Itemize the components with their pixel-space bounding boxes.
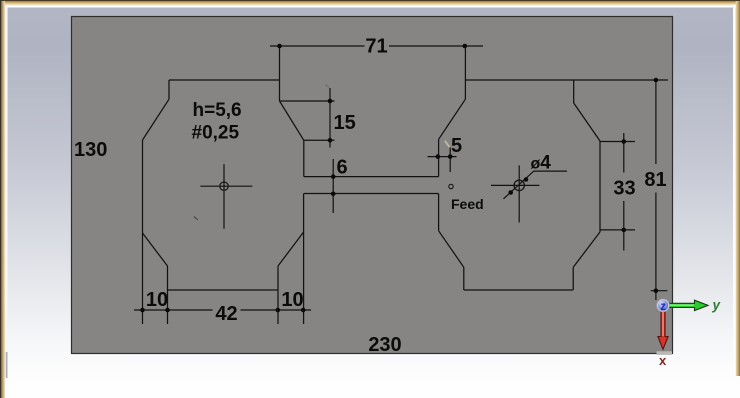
left patch: top-right vertical (and 71 extension) bbox=[279, 46, 281, 101]
window frame: top dark edge line bbox=[0, 0, 740, 1]
left patch: top edge bbox=[169, 79, 280, 81]
right patch: bottom-left vertical bbox=[463, 267, 465, 290]
right patch: left edge upper bbox=[438, 139, 440, 176]
dim 6 line bbox=[332, 159, 334, 213]
left crosshair horizontal bbox=[200, 185, 252, 187]
left patch: bottom edge bbox=[168, 289, 279, 291]
right patch: bottom-right vertical bbox=[572, 267, 574, 290]
right crosshair circle (hole phi 4) bbox=[514, 180, 524, 190]
svg-text:230: 230 bbox=[368, 334, 401, 356]
dot phi4 leader lower bbox=[508, 190, 513, 195]
right patch: bottom-right chamfer bbox=[573, 232, 600, 267]
axis widget: x arrow (red, down) bbox=[658, 310, 668, 349]
dim 5 right tick bbox=[449, 148, 451, 173]
feed strip bottom edge bbox=[304, 193, 439, 195]
dim 81 line bbox=[655, 80, 657, 300]
33 top extension line bbox=[600, 141, 635, 143]
window frame: left white inner border bbox=[5, 5, 8, 354]
dot 71 left bbox=[277, 44, 282, 49]
left crosshair vertical bbox=[223, 164, 225, 229]
33 bottom extension line bbox=[600, 229, 635, 231]
right patch: left edge lower bbox=[438, 194, 440, 231]
svg-text:ø4: ø4 bbox=[531, 152, 552, 173]
drawing panel (gray substrate 230x130) bbox=[72, 17, 673, 354]
dot 81 bottom bbox=[654, 288, 659, 293]
svg-text:y: y bbox=[712, 298, 722, 313]
svg-text:Feed: Feed bbox=[451, 196, 484, 212]
dot 81 top bbox=[654, 78, 659, 83]
feed strip top edge bbox=[304, 176, 439, 178]
axis widget: z ball bbox=[658, 300, 668, 310]
dot 6 bottom bbox=[331, 192, 336, 197]
dot 71 right bbox=[463, 44, 468, 49]
left patch: bottom-left vertical + extension tick bbox=[167, 266, 169, 324]
svg-text:71: 71 bbox=[365, 36, 387, 58]
dot 15 top bbox=[328, 99, 333, 104]
dim 5 line bbox=[428, 156, 457, 158]
left patch: bottom-right chamfer bbox=[278, 232, 304, 266]
right patch: top-left vertical (and 71 extension) bbox=[464, 46, 466, 99]
left patch: bottom-right vertical + extension tick bbox=[277, 266, 279, 324]
dim 33 line bbox=[623, 133, 625, 251]
dim 15 line bbox=[329, 88, 331, 148]
dot 15 bottom bbox=[328, 138, 333, 143]
dot 10 left inner bbox=[165, 308, 170, 313]
svg-text:h=5,6: h=5,6 bbox=[193, 100, 242, 121]
dot 10 left outer bbox=[140, 308, 145, 313]
dim 81 bottom extension bbox=[651, 290, 668, 292]
svg-text:81: 81 bbox=[644, 169, 666, 191]
dim 10/42/10 bottom line bbox=[134, 309, 311, 311]
right crosshair vertical bbox=[518, 165, 520, 222]
notch top extension line (15 top ref) bbox=[280, 100, 335, 102]
window frame: left tan strip bbox=[1, 1, 5, 398]
window frame: top tan strip bbox=[0, 1, 740, 5]
left patch: left edge + extension tick to bottom dim bbox=[142, 140, 144, 324]
right crosshair horizontal bbox=[491, 184, 539, 186]
svg-text:#0,25: #0,25 bbox=[192, 123, 240, 144]
notch bottom extension line (15 bottom ref) bbox=[304, 139, 335, 141]
svg-text:10: 10 bbox=[281, 289, 303, 311]
svg-text:130: 130 bbox=[74, 139, 107, 161]
left patch: top-left chamfer bbox=[143, 99, 170, 140]
right patch: right edge bbox=[599, 141, 601, 232]
window frame: right tan strip bbox=[736, 1, 740, 376]
svg-text:42: 42 bbox=[215, 303, 237, 325]
dot phi4 leader upper bbox=[524, 177, 529, 182]
left patch: right edge upper bbox=[303, 140, 305, 176]
dot 10 right outer bbox=[301, 308, 306, 313]
left patch: top-left corner vertical bbox=[168, 80, 170, 99]
dot 10 right inner bbox=[276, 308, 281, 313]
svg-text:6: 6 bbox=[337, 157, 348, 179]
right patch: top-right chamfer bbox=[574, 103, 600, 141]
light cursor mark near label 5 bbox=[445, 141, 450, 147]
right patch: bottom-left chamfer bbox=[439, 231, 464, 267]
dot 5 right bbox=[448, 154, 453, 159]
right patch: top-left chamfer bbox=[439, 99, 466, 139]
dot 33 top bbox=[622, 139, 627, 144]
left patch: notch chamfer bbox=[280, 101, 304, 140]
feed point small circle bbox=[449, 184, 453, 188]
faint tick above 15 dim bbox=[326, 85, 330, 88]
svg-text:z: z bbox=[660, 301, 666, 313]
axis widget: z ball outer ring bbox=[657, 299, 670, 312]
left patch: bottom-left chamfer bbox=[143, 233, 168, 266]
axis widget: y arrow (green, right) bbox=[668, 300, 708, 310]
light bar on panel bottom edge near axis bbox=[657, 351, 673, 355]
left patch: right edge lower + extension tick bbox=[303, 194, 305, 325]
svg-text:10: 10 bbox=[146, 289, 168, 311]
window frame: right white inner border bbox=[733, 5, 736, 376]
svg-text:5: 5 bbox=[451, 135, 462, 157]
dot 33 bottom bbox=[622, 228, 627, 233]
window frame: top white inner border bbox=[3, 5, 736, 7]
phi4 leader diagonal bbox=[504, 171, 568, 199]
right patch: top-right vertical bbox=[573, 80, 575, 103]
dim 71 line bbox=[270, 45, 483, 47]
dot 6 top bbox=[331, 174, 336, 179]
right patch: top edge + 81 top extension bbox=[465, 79, 668, 81]
window frame: left inner border lower gray remnant bbox=[6, 352, 8, 378]
svg-text:15: 15 bbox=[334, 112, 356, 134]
svg-text:33: 33 bbox=[613, 178, 635, 200]
window frame: left dark edge line bbox=[0, 0, 1, 398]
right patch: bottom edge bbox=[464, 289, 573, 291]
left crosshair circle bbox=[220, 182, 228, 190]
stray mark near left crosshair bbox=[194, 217, 198, 220]
dot 5 left bbox=[436, 154, 441, 159]
svg-text:x: x bbox=[659, 353, 667, 368]
